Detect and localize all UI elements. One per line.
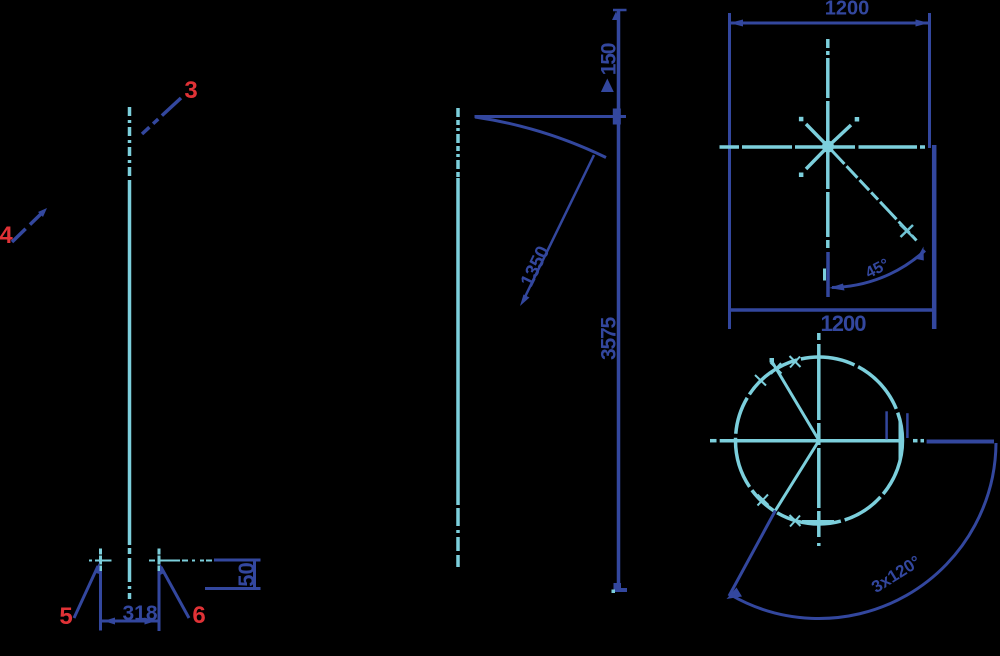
lower-left ray [775, 441, 819, 511]
main vertical dimension line [617, 10, 621, 584]
label 4 leader [12, 211, 44, 242]
dimension line 318 [102, 620, 158, 623]
50 dimension bottom extension [205, 587, 261, 590]
center star NE ray [828, 125, 851, 147]
label 4 arrow [38, 208, 47, 217]
X ticks upper-left [755, 356, 801, 386]
svg-text:4: 4 [0, 222, 13, 249]
top shoulder line [475, 115, 627, 118]
big arc arrowhead [727, 588, 743, 600]
plate left side [728, 13, 731, 329]
plate right side [928, 13, 931, 148]
center star SE ray (long, to 45 deg) [828, 147, 917, 241]
small cyan tick beside leg [823, 269, 826, 281]
vertical angle leg (navy) [826, 252, 830, 297]
arrow A below 150 (up arrowhead) [601, 79, 614, 93]
radius dimension line 1350 [523, 155, 594, 301]
plate bottom side [729, 308, 936, 312]
vertical centerline (cyan) [817, 333, 821, 546]
arrow left of 318 [104, 618, 116, 625]
radius arrow foot [520, 295, 530, 307]
bolt cross right (cyan) [149, 549, 213, 572]
cyan dot at dimension foot [612, 590, 616, 594]
tick at shoulder intersection [613, 109, 621, 125]
svg-text:150: 150 [598, 43, 621, 75]
45 degree arc [832, 251, 925, 288]
small top arrow [612, 12, 619, 21]
bottom tick of 3575 [614, 583, 628, 592]
label 3 leader [142, 98, 181, 134]
svg-text:1200: 1200 [821, 311, 867, 336]
bolt cross left (cyan) [89, 549, 112, 572]
center star blob [822, 141, 834, 153]
bolt tick at 0 deg (cyan) [899, 420, 902, 459]
star end dots [799, 117, 859, 177]
navy tick 2 right [906, 413, 909, 438]
svg-text:3: 3 [184, 77, 197, 104]
upper-left ray end dot [770, 358, 775, 363]
arrow right of 318 [145, 618, 157, 625]
bolt circle (dashed cyan) [736, 357, 903, 524]
arrow left 1200 [730, 20, 744, 27]
navy tick 1 right [885, 411, 888, 439]
svg-text:50: 50 [234, 562, 259, 586]
center star NW ray [806, 124, 828, 147]
horizontal centerline (cyan) [710, 439, 924, 443]
extension line right of 318 [158, 571, 161, 631]
vertical centerline (cyan) [826, 39, 830, 248]
label 6 leader [161, 567, 189, 618]
top dimension line 1200 [730, 22, 930, 25]
big 120 deg arc [730, 443, 996, 619]
svg-text:6: 6 [192, 602, 205, 629]
arrow right 1200 [916, 20, 930, 27]
50 dimension top extension [214, 559, 261, 562]
horizontal centerline (cyan) [720, 145, 926, 149]
pole centerline middle (cyan) [456, 108, 460, 567]
top tick of 150 [613, 9, 627, 12]
svg-text:3575: 3575 [598, 317, 621, 360]
center star SW ray [806, 147, 828, 170]
arc arrow top (points to 45 ray) [917, 247, 924, 261]
svg-text:318: 318 [122, 602, 157, 625]
bottom quadrant tick [802, 520, 834, 523]
extension line left of 318 [99, 571, 102, 631]
50 dimension line [253, 560, 256, 589]
X ticks lower-left [758, 495, 801, 527]
pole centerline (cyan, dash-dot) [128, 107, 132, 602]
curved arm [475, 117, 606, 158]
label 5 arrow [94, 562, 100, 574]
svg-text:1200: 1200 [825, 0, 870, 20]
navy radial extension lower-left [729, 511, 775, 597]
plate right side lower [932, 145, 937, 329]
navy horizontal extension right [927, 440, 994, 444]
label 6 arrow [160, 564, 166, 576]
X tick on 45 ray [900, 225, 914, 238]
upper-left ray [771, 360, 819, 441]
svg-text:5: 5 [59, 603, 72, 630]
label 5 leader [74, 566, 98, 618]
arc arrow bottom (points to vertical leg) [829, 284, 845, 291]
